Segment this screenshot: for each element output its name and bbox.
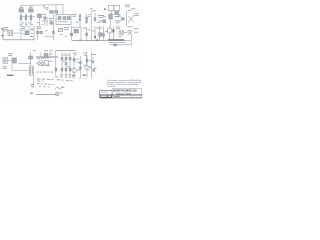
output column QA [73,56,75,78]
label C6 [99,19,102,22]
wire M2 leads [36,62,44,64]
label C14 [49,53,52,56]
wire node AA [90,52,92,78]
title block right border [141,89,143,98]
label dashes under drivers [56,75,59,78]
capacitor C10b [103,34,105,37]
node A junction [44,6,45,7]
wire node H [126,11,128,26]
capacitor C7c [53,31,55,34]
label Q10 [77,58,80,61]
capacitor C13 [29,56,33,59]
label J1 [4,26,8,29]
title block left border [111,89,113,98]
resistor R20 [65,68,67,71]
capacitor C17 [69,57,71,60]
capacitor C18b [80,67,82,69]
label MT1 [118,35,121,38]
label R10 [72,13,76,16]
label PSU title [8,52,13,55]
transformer T2 [29,66,33,75]
capacitor C6 [103,20,106,23]
transistor ticks [118,15,121,18]
label Q5 [115,26,120,29]
emitter resistor R22 [72,75,75,76]
wire speaker drop [32,75,34,87]
label faint dashes [72,77,76,80]
transistor Q10 [73,58,75,61]
emitter resistor R23 [83,75,86,76]
capacitor C15 [61,57,63,60]
capacitor C16 [65,57,67,60]
label C5 [88,13,91,16]
connector CN1 dark strip [100,95,112,98]
title block cell separator [132,95,134,98]
paper texture [0,2,142,98]
connector block CN1 [100,90,112,97]
blob on rail [96,40,98,41]
label driver notes2 [63,60,65,63]
label D2 [92,53,96,56]
label speaker net [31,84,34,85]
diode D1 [94,36,96,38]
wire node U [86,52,88,65]
connector CN1 slot 2 [108,95,111,96]
label R16b [92,30,95,33]
svg-text:and mod: and mod [107,86,116,88]
arrow into K2 [104,8,106,10]
transistor Q2 inside U1 [63,17,66,20]
relay K1 [44,61,48,65]
label note G2 [44,49,48,52]
resistor R18 [55,68,57,71]
wire node N [86,27,88,41]
label values row4 [39,85,41,88]
resistor R2 [25,13,27,26]
resistor R7 [44,17,46,19]
wire psu bus1 [36,55,58,57]
wire stub V1 [91,8,93,13]
diode D2 [92,57,94,64]
capacitor C4 [50,22,53,24]
relay box K2b [114,6,120,11]
label driver notes [63,54,66,57]
transistor Q10b [72,68,76,72]
wire U2 left edge [55,51,57,78]
wire node S [40,52,42,58]
resistor R1 [20,10,22,27]
resistor R16 [99,33,102,36]
transistor Q5 [108,28,111,33]
transformer T1 [3,58,8,63]
label R1 R2 R6 values [23,15,25,18]
capacitor C14 [44,53,48,58]
wire node R7 drop [44,19,46,26]
wire ground rail right [72,40,127,42]
transistor Q4 arrows [128,15,134,23]
label R15 [83,27,86,30]
capacitor C1 [19,9,24,12]
capacitor C2 [29,9,34,12]
transistor Q1 inside U1 [58,17,61,20]
wire node R11 drop [110,14,112,26]
label S1 [64,26,69,29]
signature squiggle [55,86,63,90]
output column QB [79,56,81,78]
label C14b [37,57,40,60]
title block top border [112,88,142,90]
wire rail lower [108,41,126,43]
connector J1 pin 2 [1,35,3,36]
resistor R17 block [108,39,124,40]
resistor R11 [109,14,113,19]
fuse F1 [7,75,13,76]
resistor R4 [50,11,54,14]
wire node P [94,26,96,41]
label bottom row2 [37,80,40,83]
wire node R [30,52,32,65]
capacitor C10 [86,33,88,36]
label C7 [37,25,41,28]
capacitor C7b [40,31,43,33]
label R11 [114,13,120,16]
wire node J [33,26,35,40]
resistor Rg [94,18,96,21]
wire psu link [18,63,31,65]
wire upper link [72,26,81,28]
capacitor C5 [86,17,88,19]
capacitor C7 [37,31,39,34]
wire M1 to stage1 [13,32,21,34]
capacitor C8 [70,33,72,35]
connector J1 input [2,28,4,40]
wire node M [80,27,82,40]
wire node V [11,65,13,71]
label Q6 [127,25,133,28]
meter MT1 [119,30,124,35]
capacitor C9b [121,18,124,20]
wire node G [94,13,96,22]
label QB [77,69,80,72]
label R16 [98,27,102,30]
label values row3 [37,82,39,85]
wire ground rail left [3,39,35,41]
label extra top [42,20,44,23]
capacitor C5b [86,21,88,23]
resistor R5 [55,11,58,14]
label C3 [43,13,47,16]
label C10b [105,30,108,33]
wire node C [52,13,54,26]
label T2 top [40,64,44,67]
resistor R14 [74,29,78,33]
wire K2 to R11 [110,11,112,14]
wire node Q5b [112,27,114,40]
capacitor C9 [115,11,119,13]
output column QC [86,56,88,78]
wire psu bus2 [36,56,58,58]
driver column rail2 [65,52,67,78]
label C7c [45,29,48,32]
label terminal row [36,71,39,74]
wire mid rail left [19,29,35,31]
label P1 [76,21,79,24]
wire mid segment [44,36,53,38]
label top-right notes [125,4,131,7]
wire node L [70,26,72,41]
resistor R21 [69,68,71,71]
label out note [2,65,7,68]
connector CN1 slot 1 [101,95,107,96]
label K1 [49,60,52,63]
label R8 [49,17,53,20]
junction arrow on rail [79,39,81,41]
capacitor C18 [80,61,82,64]
transistor Q3 inside U1 [67,17,70,20]
capacitor C16b [65,63,67,65]
speaker LS1 [55,92,59,96]
wire node K0 [37,26,39,40]
wire node U2top [56,50,76,52]
label near signature [62,86,64,89]
op-amp U1 [56,15,71,25]
resistor R9 [79,15,81,17]
ground mark [30,93,33,94]
label right bottom row [57,78,60,81]
resistor R13 [25,31,29,35]
label Q4 [134,12,139,15]
wire drop from bus to C1 [21,5,64,15]
resistor R24 [86,59,88,62]
capacitor C3 [38,14,42,18]
label Q8 [73,52,77,55]
wire node E [86,14,88,24]
capacitor C11 [112,29,114,32]
wire node F [90,13,92,26]
capacitor C12 [114,44,117,46]
title block divider [100,94,142,96]
label note G1 [33,49,36,52]
label R12 [115,19,121,22]
wire node O [90,26,92,41]
wire speaker line [36,93,55,95]
label IC notes [98,14,104,17]
label bottom row1 [37,78,41,81]
label QC [89,59,91,62]
label R13 [30,35,33,38]
potentiometer P1 arrow [79,19,81,21]
transistor Q6 [128,31,132,40]
relay box K2a [109,6,115,11]
label R18-R21 [60,73,63,76]
switch S1 [58,28,62,31]
wire node Q2 [103,26,105,41]
driver column rail3 [69,52,71,78]
label ic extra [97,21,101,24]
label stage1 [20,25,25,28]
label V1 [90,7,92,10]
title block bottom border [100,97,142,99]
label bias [93,67,97,70]
resistor R19 [61,68,63,71]
connector CN1 label [101,91,107,94]
title block cell text [114,96,120,97]
resistor R6 [30,13,32,27]
label LS1 [60,91,62,94]
label C1 value [20,6,24,9]
wire node D [79,13,81,27]
label mid row [22,32,24,35]
transistor Q11 [85,66,89,70]
label mid notes [96,27,99,30]
wire node Q [98,26,100,41]
wire out link [12,70,29,72]
label C2 value [29,6,33,9]
label U1 [58,20,68,23]
label mid extra [60,33,63,36]
rectifier B1 [13,58,17,63]
label Q9 [83,52,87,55]
wire node C3 drop [38,18,40,26]
connector J1 pin 1 [1,28,3,29]
wire top supply bus [21,4,64,7]
wire node T [49,52,51,58]
meter M2 [38,61,43,66]
wire J1 to M1 [3,30,8,32]
wire T1 to B1 [8,57,13,65]
label stage1 notes [22,22,24,25]
driver column rail1 [61,52,63,78]
wire rail end step [110,41,132,45]
wire node B [46,17,48,26]
wire node K [52,26,54,40]
label R3 value [45,6,49,9]
wire node I [20,30,22,40]
microphone M1 [8,30,13,36]
